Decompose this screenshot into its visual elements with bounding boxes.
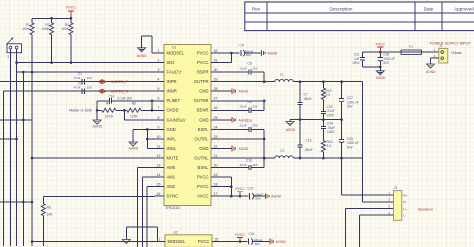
svg-text:OUTNL: OUTNL xyxy=(194,156,209,161)
op-amp U2 TPA3116 body xyxy=(165,231,212,247)
wire AM2 net (pin15) xyxy=(147,187,154,247)
ground AGND (R4) xyxy=(93,110,103,128)
wire BSNR pin26 xyxy=(221,109,265,111)
wire AGND bus xyxy=(290,118,343,121)
svg-text:16: 16 xyxy=(157,192,161,196)
svg-text:22: 22 xyxy=(214,144,218,148)
pin 27 OUTNR (U1 right) xyxy=(194,97,221,104)
svg-text:OUTPL: OUTPL xyxy=(195,136,210,141)
svg-text:+24vdc: +24vdc xyxy=(451,51,462,55)
capacitor C7 .68uF xyxy=(297,82,311,120)
pin 14 AM1 (U1 left) xyxy=(155,173,176,180)
svg-text:AM2: AM2 xyxy=(167,184,176,189)
wire GND-INPL-INNL tie xyxy=(146,129,148,148)
pin 16 SYNC (U1 left) xyxy=(155,192,179,199)
capacitor C9 0.22uF xyxy=(240,119,259,132)
op-amp U1 TPA3116 body xyxy=(164,45,211,211)
switch S1 (input jack) xyxy=(7,38,22,60)
port UNREG_P xyxy=(99,80,129,84)
resistor R3 100K xyxy=(61,18,73,62)
pin 1 MODSEL (U1 left) xyxy=(155,49,185,56)
power AGND arrow (pin 28) xyxy=(221,88,249,94)
svg-text:INPR: INPR xyxy=(167,79,177,84)
svg-text:47uF: 47uF xyxy=(73,76,80,80)
svg-text:C10: C10 xyxy=(246,158,252,162)
pin 2 SDz (U1 left) xyxy=(155,58,175,65)
svg-text:PVCC: PVCC xyxy=(197,60,209,65)
svg-text:GND: GND xyxy=(199,89,208,94)
wire PVCC input rail xyxy=(363,51,401,54)
svg-text:22uF: 22uF xyxy=(240,66,247,70)
pin 29 OUTPR (U1 right) xyxy=(194,78,221,85)
svg-text:27: 27 xyxy=(214,97,218,101)
svg-text:PVCC: PVCC xyxy=(235,187,245,191)
svg-text:12: 12 xyxy=(157,154,161,158)
power PVCC (top-left) xyxy=(66,6,76,19)
wire PVCC bus tie top xyxy=(230,53,232,63)
wire switch pin1 down xyxy=(10,53,12,246)
svg-text:5: 5 xyxy=(158,87,160,91)
pin 6 PLIMIT (U1 left) xyxy=(155,97,181,104)
wire left vertical rail xyxy=(3,91,5,246)
wire PVCC bus tie bottom xyxy=(230,177,233,196)
power AGND arrow (pin 25) xyxy=(221,117,249,123)
svg-text:TPA3116: TPA3116 xyxy=(165,206,179,210)
svg-text:GND: GND xyxy=(199,117,208,122)
svg-text:100K: 100K xyxy=(42,27,51,31)
wire GAIN divider tap (pin8) xyxy=(124,110,154,120)
svg-text:25V: 25V xyxy=(252,66,258,70)
svg-text:1: 1 xyxy=(158,49,160,53)
svg-text:PVCC: PVCC xyxy=(198,239,210,244)
svg-text:4: 4 xyxy=(158,78,160,82)
svg-text:23: 23 xyxy=(214,135,218,139)
wire U2 MODSEL net xyxy=(32,241,158,243)
svg-text:Date: Date xyxy=(424,6,434,11)
pin 32 PVCC (U2) xyxy=(198,237,222,244)
svg-text:32: 32 xyxy=(214,49,218,53)
capacitor C30 1000uF 50V xyxy=(378,52,395,67)
svg-text:22uF: 22uF xyxy=(240,124,247,128)
wire INNR net (pin5) xyxy=(4,90,155,92)
resistor R1 100K xyxy=(22,18,34,34)
svg-text:SYNC: SYNC xyxy=(167,194,179,199)
svg-text:50V: 50V xyxy=(255,196,261,200)
wire bulk column to speaker pin1 xyxy=(342,158,394,195)
svg-text:R5: R5 xyxy=(132,102,136,106)
svg-text:15: 15 xyxy=(157,183,161,187)
svg-text:AGND: AGND xyxy=(93,124,103,128)
svg-text:F1: F1 xyxy=(409,45,413,49)
svg-text:PVCC: PVCC xyxy=(197,184,209,189)
wire BSPR pin30 xyxy=(221,71,265,73)
svg-text:INNL: INNL xyxy=(167,146,177,151)
svg-text:AGND: AGND xyxy=(129,147,139,151)
ground AGND (MODSEL) xyxy=(137,48,147,58)
wire BSPR to OUTPR xyxy=(263,72,266,83)
svg-text:MODSEL: MODSEL xyxy=(167,50,185,55)
svg-text:PVCC: PVCC xyxy=(66,6,76,10)
wire speaker pin4 down xyxy=(360,215,394,247)
capacitor C34 .01uF 100V xyxy=(321,120,336,134)
wire INPL left stub xyxy=(0,138,17,140)
pin 18 PVCC (U1 right) xyxy=(197,183,221,190)
resistor R2 100K xyxy=(42,18,54,62)
svg-text:21: 21 xyxy=(214,154,218,158)
svg-text:C4: C4 xyxy=(240,43,244,47)
svg-text:2: 2 xyxy=(158,58,160,62)
svg-text:AGND: AGND xyxy=(137,54,147,58)
label Speakers xyxy=(418,207,433,211)
svg-text:FAULTz: FAULTz xyxy=(167,70,182,75)
ground (U2 MODSEL) xyxy=(122,240,130,244)
wire PVCC pin18 xyxy=(221,186,232,188)
svg-text:U1: U1 xyxy=(172,46,177,50)
capacitor C14 0.1uF 16V xyxy=(97,95,154,111)
svg-text:25: 25 xyxy=(214,116,218,120)
svg-text:24: 24 xyxy=(214,125,218,129)
svg-text:100V: 100V xyxy=(352,61,360,65)
pin 23 OUTPL (U1 right) xyxy=(195,135,221,142)
pin 7 GVDD (U1 left) xyxy=(155,106,179,113)
svg-text:0.1uF 16V: 0.1uF 16V xyxy=(118,96,134,100)
power PVCC (AVCC) xyxy=(235,187,245,196)
svg-text:20.0K: 20.0K xyxy=(105,115,114,119)
svg-text:GND: GND xyxy=(199,146,208,151)
svg-text:26: 26 xyxy=(214,106,218,110)
wire INNL net (pin11) xyxy=(147,148,154,150)
svg-text:J1: J1 xyxy=(438,44,443,48)
svg-text:17: 17 xyxy=(214,192,218,196)
ground AGND (J1) xyxy=(426,64,436,74)
wire PVCC pin19 xyxy=(221,176,232,178)
resistor R20 3.3 xyxy=(321,129,332,159)
wire pullup top rail xyxy=(32,17,72,20)
power PVCC (U2) xyxy=(235,233,245,242)
svg-text:C6: C6 xyxy=(248,62,252,66)
capacitor C4 100uF 50V xyxy=(240,43,262,57)
wire OUTPR to speaker xyxy=(363,82,394,202)
power AGND arrow (pin 22) xyxy=(221,146,249,152)
pin 25 GND (U1 right) xyxy=(199,116,220,123)
wire cap bottoms xyxy=(363,66,382,69)
svg-text:100K: 100K xyxy=(130,115,139,119)
pin 21 OUTNL (U1 right) xyxy=(194,154,220,161)
svg-text:BSNR: BSNR xyxy=(197,108,209,113)
svg-text:GVDD: GVDD xyxy=(167,108,179,113)
capacitor C8 0.22uF xyxy=(240,100,259,113)
svg-text:PVCC: PVCC xyxy=(376,42,386,46)
capacitor C2 47uF xyxy=(73,82,93,94)
ground AGND (input caps) xyxy=(376,67,386,80)
wire AM0 net (pin13) xyxy=(138,168,155,247)
wire MODSEL to AGND xyxy=(142,36,155,53)
wire U2 PVCC pin32 net xyxy=(222,240,248,243)
svg-text:25V: 25V xyxy=(252,163,258,167)
svg-text:C16: C16 xyxy=(306,139,312,143)
svg-text:28: 28 xyxy=(214,87,218,91)
pin 26 BSNR (U1 right) xyxy=(197,106,221,113)
capacitor C31 .1uF 100V xyxy=(352,52,365,67)
svg-text:7: 7 xyxy=(158,106,160,110)
port UNREG_N xyxy=(99,89,129,93)
pin 28 GND (U1 right) xyxy=(199,87,220,94)
pin 15 AM2 (U1 left) xyxy=(155,183,176,190)
svg-text:AGND: AGND xyxy=(376,76,386,80)
svg-text:L+: L+ xyxy=(403,207,407,211)
wire fuse to J1 xyxy=(422,48,439,52)
svg-text:C7: C7 xyxy=(304,92,308,96)
wire MUTE net (pin12) xyxy=(32,157,155,159)
svg-text:47uF: 47uF xyxy=(73,86,80,90)
resistor R4 20.0K xyxy=(102,102,116,119)
capacitor C41 100uF 50V xyxy=(249,232,271,246)
pin 31 PVCC (U1 right) xyxy=(197,58,221,65)
svg-text:22uF: 22uF xyxy=(240,163,247,167)
svg-text:AGND: AGND xyxy=(286,128,296,132)
capacitor C1 47uF xyxy=(73,72,93,84)
resistor R19 3.3 xyxy=(321,82,331,100)
svg-text:8: 8 xyxy=(158,116,160,120)
svg-text:UNREG_P: UNREG_P xyxy=(111,80,129,84)
svg-text:31: 31 xyxy=(214,58,218,62)
svg-text:3: 3 xyxy=(158,68,160,72)
svg-text:INNR: INNR xyxy=(167,89,177,94)
pin 5 INNR (U1 left) xyxy=(155,87,177,94)
svg-text:14: 14 xyxy=(157,173,161,177)
svg-text:MUTE: MUTE xyxy=(167,156,179,161)
label POWER SUPPLY INPUT xyxy=(430,41,472,45)
svg-text:R-: R- xyxy=(403,200,406,204)
capacitor C27 1000uF 50V xyxy=(339,82,359,120)
svg-text:C14: C14 xyxy=(109,95,115,99)
svg-text:Speakers: Speakers xyxy=(418,207,433,211)
wire INPL net (pin10) xyxy=(146,138,155,141)
ground AGND (pin9 GND) xyxy=(129,129,139,150)
capacitor C28 1000uF 50V xyxy=(339,120,359,159)
svg-text:PVCC: PVCC xyxy=(197,175,209,180)
svg-text:10: 10 xyxy=(157,135,161,139)
svg-text:PVCC: PVCC xyxy=(197,50,209,55)
svg-text:OUTPR: OUTPR xyxy=(194,79,209,84)
capacitor C16 .68uF xyxy=(297,120,312,159)
svg-text:BSPL: BSPL xyxy=(198,127,209,132)
svg-text:.68uF: .68uF xyxy=(304,97,312,101)
svg-text:50V: 50V xyxy=(383,61,390,65)
wire INPR net (pin4) xyxy=(0,81,155,83)
wire V3 vertical xyxy=(22,71,25,246)
inductor L1 xyxy=(275,72,293,81)
pin 22 GND (U1 right) xyxy=(199,144,220,151)
wire OUTNR pin27 xyxy=(221,100,266,103)
svg-text:MODSEL: MODSEL xyxy=(168,239,186,244)
power PVCC (input) xyxy=(376,42,386,52)
svg-text:13: 13 xyxy=(157,164,161,168)
wire PVCC pin32 xyxy=(221,52,240,55)
resistor R5 100K xyxy=(127,102,141,119)
capacitor C37 100uF 50V xyxy=(248,187,266,201)
svg-text:AGND: AGND xyxy=(276,240,286,244)
svg-text:C41: C41 xyxy=(249,232,255,236)
svg-text:3.3: 3.3 xyxy=(327,144,332,148)
svg-text:UNREG_N: UNREG_N xyxy=(111,90,129,94)
svg-text:AGND: AGND xyxy=(271,195,281,199)
wire OUTPL pin23 xyxy=(221,138,265,140)
svg-text:10V: 10V xyxy=(87,76,93,80)
svg-text:30: 30 xyxy=(214,68,218,72)
svg-text:50V: 50V xyxy=(347,105,354,109)
wire stub y202 left xyxy=(0,201,32,203)
wire PLIMIT-GVDD tie xyxy=(151,100,154,112)
power AGND arrow (U2) xyxy=(270,239,286,245)
wire GVDD net (pin7) xyxy=(96,109,155,112)
svg-text:11: 11 xyxy=(157,144,161,148)
wire BSNL pin20 xyxy=(221,167,265,169)
connector J1 +24vdc xyxy=(438,44,462,63)
wire J1 pin2 to AGND xyxy=(431,54,439,64)
svg-text:J3: J3 xyxy=(393,186,398,190)
svg-text:C8: C8 xyxy=(248,100,252,104)
svg-text:100V: 100V xyxy=(327,130,335,134)
svg-text:1: 1 xyxy=(159,237,161,241)
svg-text:9: 9 xyxy=(158,125,160,129)
svg-text:AGND: AGND xyxy=(426,70,436,74)
svg-text:PLIMIT: PLIMIT xyxy=(167,98,181,103)
svg-text:C37: C37 xyxy=(248,187,254,191)
wire PVCC pin31 xyxy=(221,62,232,64)
svg-text:POWER SUPPLY INPUT: POWER SUPPLY INPUT xyxy=(430,41,472,45)
svg-text:L2: L2 xyxy=(281,148,285,152)
pin 20 BSNL (U1 right) xyxy=(198,164,221,171)
power AGND arrow (pin32) xyxy=(262,50,278,56)
svg-text:100K: 100K xyxy=(22,27,31,31)
svg-text:50V: 50V xyxy=(255,242,261,246)
svg-text:10K: 10K xyxy=(47,212,54,216)
pin 19 PVCC (U1 right) xyxy=(197,173,221,180)
svg-text:25V: 25V xyxy=(252,105,258,109)
svg-text:3.3: 3.3 xyxy=(326,93,331,97)
connector J3 Speakers xyxy=(388,186,407,220)
svg-text:C9: C9 xyxy=(248,119,252,123)
wire U2 MODSEL ground path xyxy=(126,227,157,242)
wire OUTPL down link xyxy=(263,139,266,160)
label Master G-16db xyxy=(69,109,92,113)
wire FAULTZ net (pin3) xyxy=(17,71,155,73)
svg-text:AGND: AGND xyxy=(239,147,249,151)
capacitor C10 0.22uF xyxy=(240,158,259,170)
wire R1 lead / control bus V4 xyxy=(31,35,34,246)
svg-text:32: 32 xyxy=(215,237,219,241)
svg-text:29: 29 xyxy=(214,78,218,82)
pin 12 MUTE (U1 left) xyxy=(155,154,179,161)
svg-text:AM0: AM0 xyxy=(167,165,176,170)
power AGND arrow (AVCC) xyxy=(265,193,281,199)
svg-text:25V: 25V xyxy=(252,124,258,128)
svg-text:22uF: 22uF xyxy=(240,105,247,109)
svg-text:INPL: INPL xyxy=(167,136,177,141)
svg-text:20: 20 xyxy=(214,164,218,168)
svg-text:AVCC: AVCC xyxy=(197,194,208,199)
svg-text:10V: 10V xyxy=(87,86,93,90)
pin 1 MODSEL (U2) xyxy=(156,237,186,244)
svg-text:100K: 100K xyxy=(61,27,70,31)
wire BSNL to OUTNL xyxy=(263,157,266,168)
title block table xyxy=(245,2,474,31)
svg-text:GAIN/SLV: GAIN/SLV xyxy=(167,117,186,122)
wire AVCC pin17 xyxy=(221,195,249,198)
svg-text:R6: R6 xyxy=(47,206,51,210)
pin 8 GAIN/SLV (U1 left) xyxy=(155,116,186,123)
svg-text:18: 18 xyxy=(214,183,218,187)
wire SDZ net (pin2) xyxy=(17,61,155,64)
wire switch pin2 down xyxy=(15,53,18,246)
capacitor C6 0.22uF xyxy=(240,62,259,75)
pin 10 INPL (U1 left) xyxy=(155,135,177,142)
pin 13 AM0 (U1 left) xyxy=(155,164,176,171)
wire stub y119.9 left xyxy=(0,119,32,121)
pin 17 AVCC (U1 right) xyxy=(197,192,220,199)
pin 4 INPR (U1 left) xyxy=(155,78,177,85)
svg-text:L-: L- xyxy=(403,214,406,218)
svg-text:BSNL: BSNL xyxy=(198,165,210,170)
fuse F1 xyxy=(401,45,422,55)
wire BSNR tie xyxy=(263,101,265,111)
wire BSPL pin24 xyxy=(221,128,265,130)
svg-text:.68uF: .68uF xyxy=(305,148,313,152)
svg-text:U2: U2 xyxy=(173,231,178,235)
wire OUTNL pin21 xyxy=(221,157,363,160)
svg-text:6: 6 xyxy=(158,97,160,101)
svg-text:50V: 50V xyxy=(246,53,252,57)
wire SYNC net (pin16) xyxy=(43,195,154,197)
pin 30 BSPR (U1 right) xyxy=(197,68,220,75)
ground AGND (filter bus) xyxy=(286,120,296,132)
resistor R6 10K xyxy=(41,196,53,246)
wire BSPL to OUTPL xyxy=(263,129,266,140)
svg-text:SDz: SDz xyxy=(167,60,175,65)
svg-text:PVCC: PVCC xyxy=(235,233,245,237)
pin 32 PVCC (U1 right) xyxy=(197,49,221,56)
svg-text:R+: R+ xyxy=(403,193,407,197)
svg-text:Approved: Approved xyxy=(454,6,474,11)
svg-text:OUTNR: OUTNR xyxy=(194,98,209,103)
svg-text:AGND: AGND xyxy=(239,90,249,94)
wire OUTPR pin29 xyxy=(221,80,363,83)
svg-text:AM1: AM1 xyxy=(167,175,176,180)
svg-text:AGND: AGND xyxy=(268,51,278,55)
svg-text:L1: L1 xyxy=(280,72,284,76)
svg-text:50V: 50V xyxy=(347,145,354,149)
wire speaker pin3 down xyxy=(345,209,393,247)
svg-text:Description: Description xyxy=(330,6,353,11)
svg-text:Rev: Rev xyxy=(252,6,261,11)
svg-text:GND: GND xyxy=(167,127,176,132)
pin 9 GND (U1 left) xyxy=(155,125,176,132)
wire GND pin9 net xyxy=(133,128,154,131)
svg-text:BSPR: BSPR xyxy=(197,70,208,75)
pin 3 FAULTz (U1 left) xyxy=(155,68,182,75)
svg-text:100V: 100V xyxy=(327,113,335,117)
inductor L2 xyxy=(275,148,293,158)
svg-text:19: 19 xyxy=(214,173,218,177)
pin 24 BSPL (U1 right) xyxy=(198,125,221,132)
svg-text:Master G-16db: Master G-16db xyxy=(69,109,92,113)
svg-text:2: 2 xyxy=(8,55,10,59)
wire AM1 net (pin14) xyxy=(142,177,154,247)
pin 11 INNL (U1 left) xyxy=(155,144,177,151)
capacitor C33 .01uF 100V xyxy=(321,100,335,120)
